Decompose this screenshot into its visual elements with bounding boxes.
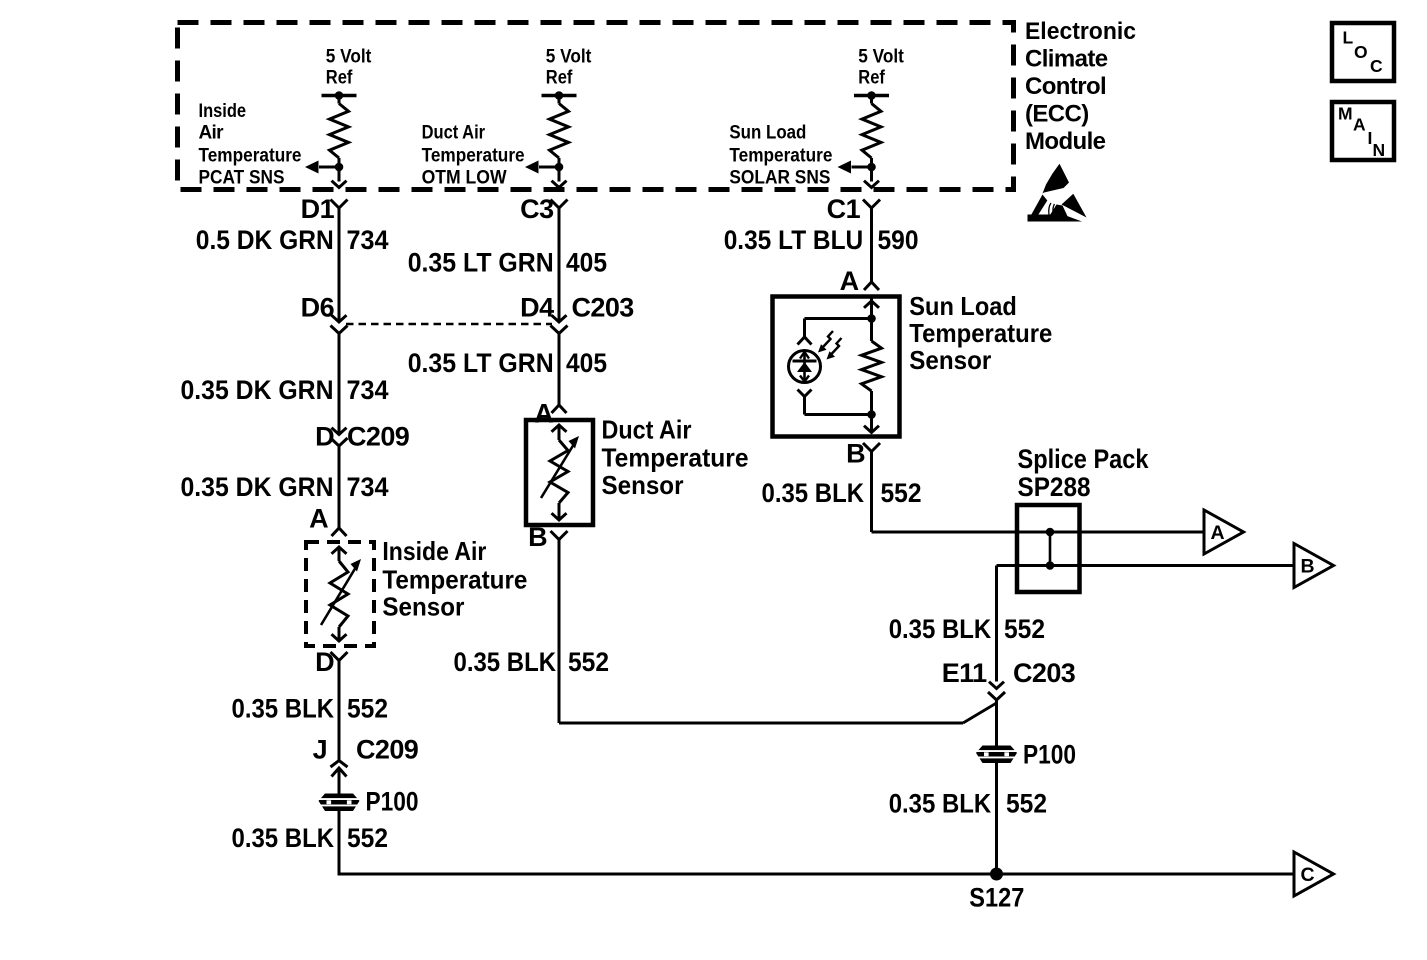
svg-text:Temperature: Temperature [382, 565, 527, 595]
svg-text:A: A [1353, 115, 1366, 135]
thermistor RT1 (inside air sensor) [332, 547, 347, 554]
svg-text:0.35 BLK: 0.35 BLK [889, 614, 992, 644]
5V ref rail (cell D1) [322, 94, 357, 98]
svg-text:C209: C209 [347, 422, 410, 452]
node: sense junction (cell C3) [555, 163, 564, 172]
module exit arrow (terminal D1) [332, 181, 347, 188]
wire: C209 to sensor pin A (0.35 DK GRN 734) [338, 446, 341, 528]
sun sensor left branch wires [805, 317, 872, 320]
svg-text:Air: Air [199, 122, 225, 143]
svg-text:0.35 BLK: 0.35 BLK [232, 823, 335, 853]
wire: C3 to D4 (0.35 LT GRN 405) [558, 208, 561, 322]
svg-text:Duct Air: Duct Air [422, 122, 486, 143]
node: splice upper junction [1046, 528, 1055, 537]
pin B connector cup (duct) [551, 531, 568, 540]
svg-text:552: 552 [881, 478, 922, 508]
wire node to terminal C3 [558, 167, 561, 182]
splice pack SP288 outline [1017, 505, 1080, 592]
wire rail to resistor (cell C1) [870, 96, 873, 104]
in-line connector D6 (C203) [332, 315, 347, 322]
svg-text:S127: S127 [969, 883, 1024, 913]
signal arrow to PCAT SNS (cell D1) [319, 166, 339, 169]
resistor R4 (sun sensor) [862, 341, 882, 391]
svg-text:Inside Air: Inside Air [382, 536, 486, 566]
svg-text:Climate: Climate [1025, 45, 1108, 72]
svg-text:Module: Module [1025, 128, 1106, 155]
svg-text:0.35 BLK: 0.35 BLK [232, 694, 335, 724]
inside air temperature sensor outline (dashed box) [306, 542, 374, 646]
svg-text:M: M [1338, 104, 1352, 124]
svg-text:Duct Air: Duct Air [602, 415, 692, 445]
svg-text:D: D [315, 422, 334, 452]
grommet P100 (right) [976, 746, 1017, 764]
svg-text:5 Volt: 5 Volt [326, 46, 372, 67]
svg-text:SOLAR SNS: SOLAR SNS [729, 168, 830, 189]
svg-text:0.35 LT BLU: 0.35 LT BLU [724, 225, 864, 255]
svg-text:405: 405 [566, 248, 607, 278]
in-line connector J C209 [331, 761, 348, 768]
svg-text:A: A [1211, 522, 1225, 544]
module exit arrow (terminal C3) [552, 181, 567, 188]
svg-text:C209: C209 [356, 735, 419, 765]
wire resistor to node (cell C1) [870, 158, 873, 167]
svg-text:A: A [534, 399, 553, 429]
svg-text:Inside: Inside [199, 101, 247, 122]
svg-text:734: 734 [347, 375, 389, 405]
wire resistor to node (cell C3) [558, 158, 561, 167]
svg-text:Temperature: Temperature [602, 443, 749, 473]
svg-text:0.35 LT GRN: 0.35 LT GRN [408, 348, 554, 378]
svg-text:Ref: Ref [546, 68, 573, 89]
svg-text:552: 552 [1006, 789, 1047, 819]
svg-text:0.5 DK GRN: 0.5 DK GRN [196, 225, 334, 255]
svg-text:N: N [1373, 140, 1385, 160]
wire: P100 to ground rail [339, 811, 1294, 874]
node: 5V rail junction (cell C1) [867, 91, 876, 100]
svg-text:Sensor: Sensor [602, 470, 684, 500]
photodiode bottom cup [798, 390, 812, 397]
node: 5V rail junction (cell C3) [555, 91, 564, 100]
pin A connector chevron (duct) [552, 405, 567, 413]
resistor R2 (pull-up, cell C3) [550, 104, 569, 159]
svg-text:D6: D6 [301, 293, 335, 323]
svg-text:P100: P100 [1023, 740, 1076, 770]
wire: splice to connector B run [997, 564, 1295, 567]
5V ref rail (cell C3) [542, 94, 577, 98]
node: sense junction (cell C1) [867, 163, 876, 172]
wire node to terminal C1 [870, 167, 873, 182]
svg-text:Sensor: Sensor [382, 592, 464, 622]
svg-text:O: O [1354, 42, 1367, 62]
svg-text:Sun Load: Sun Load [729, 122, 806, 143]
connector triangle A [1204, 510, 1244, 554]
node: splice lower junction [1046, 561, 1055, 570]
svg-text:C203: C203 [1013, 658, 1076, 688]
in-line connector E11 C203 [989, 682, 1004, 689]
pin A connector chevron (sun) [864, 282, 879, 290]
wire: C209 to P100 grommet [338, 768, 341, 794]
node: sun sensor bottom junction [867, 410, 876, 419]
svg-text:0.35 DK GRN: 0.35 DK GRN [181, 375, 334, 405]
svg-text:B: B [528, 522, 547, 552]
wire: P100 to splice S127 [995, 763, 998, 874]
pin D connector cup [331, 652, 348, 661]
svg-text:Control: Control [1025, 73, 1106, 100]
LOC tab box [1332, 23, 1394, 81]
sun sensor internal wire (right branch) [870, 297, 873, 342]
wire: D4 to duct sensor pin A (0.35 LT GRN 405) [558, 334, 561, 405]
svg-text:C: C [1370, 56, 1383, 76]
svg-text:0.35 DK GRN: 0.35 DK GRN [181, 472, 334, 502]
terminal C3 connector cup [551, 200, 568, 209]
grommet P100 (left) [319, 794, 360, 812]
resistor R3 (pull-up, cell C1) [862, 104, 881, 159]
terminal C1 connector cup [863, 200, 880, 209]
svg-text:5 Volt: 5 Volt [858, 46, 904, 67]
ESD sensitivity symbol [1043, 164, 1070, 194]
connector triangle B [1294, 544, 1334, 588]
node: 5V rail junction (cell D1) [335, 91, 344, 100]
svg-text:D1: D1 [301, 194, 335, 224]
in-line connector D4 C203 [552, 315, 567, 322]
svg-text:Ref: Ref [326, 68, 353, 89]
svg-text:L: L [1343, 28, 1354, 48]
svg-text:0.35 BLK: 0.35 BLK [889, 789, 992, 819]
svg-text:J: J [313, 735, 327, 765]
svg-text:P100: P100 [366, 787, 419, 817]
svg-text:C: C [1301, 864, 1315, 886]
wire: C203 to P100 grommet (right) [995, 700, 998, 746]
photodiode D1 (sun sensor) top chevron [798, 337, 812, 345]
splice internal link [1049, 532, 1052, 566]
wire: C1 to sun sensor pin A (0.35 LT BLU 590) [870, 208, 873, 282]
svg-text:0.35 BLK: 0.35 BLK [454, 647, 557, 677]
svg-text:Ref: Ref [858, 68, 885, 89]
wire: D6 to C209 (0.35 DK GRN 734) [338, 334, 341, 435]
splice S127 junction dot [990, 868, 1003, 881]
svg-text:734: 734 [347, 472, 389, 502]
svg-text:590: 590 [878, 225, 919, 255]
sun load temperature sensor outline [773, 297, 900, 437]
duct air temperature sensor outline [526, 420, 593, 525]
svg-text:A: A [309, 504, 328, 534]
photodiode D1 circle [789, 351, 821, 383]
svg-text:A: A [840, 266, 859, 296]
svg-text:5 Volt: 5 Volt [546, 46, 592, 67]
svg-text:Sun Load: Sun Load [909, 291, 1017, 321]
svg-text:PCAT SNS: PCAT SNS [199, 168, 285, 189]
wire resistor to node (cell D1) [338, 158, 341, 167]
wire: duct sensor B to C203 splice (0.35 BLK 552) [558, 539, 561, 723]
module exit arrow (terminal C1) [864, 181, 879, 188]
light arrows into photodiode [823, 331, 834, 348]
connector C203 dashed tie-line [346, 323, 552, 325]
terminal D1 connector cup [331, 200, 348, 209]
svg-text:SP288: SP288 [1018, 472, 1091, 502]
svg-text:Temperature: Temperature [422, 146, 525, 167]
wire rail to resistor (cell C3) [558, 96, 561, 104]
svg-text:OTM LOW: OTM LOW [422, 168, 507, 189]
pin A connector chevron [332, 528, 347, 536]
wire node to terminal D1 [338, 167, 341, 182]
svg-text:(ECC): (ECC) [1025, 100, 1089, 127]
svg-text:Temperature: Temperature [909, 318, 1052, 348]
thermistor RT2 (duct air sensor) [552, 425, 567, 432]
svg-text:0.35 LT GRN: 0.35 LT GRN [408, 248, 554, 278]
signal arrow to SOLAR SNS (cell C1) [852, 166, 872, 169]
svg-text:D4: D4 [520, 293, 554, 323]
connector triangle C [1294, 852, 1334, 896]
svg-text:552: 552 [347, 694, 388, 724]
svg-text:552: 552 [568, 647, 609, 677]
resistor R1 (pull-up, cell D1) [330, 104, 349, 159]
svg-text:C203: C203 [572, 293, 635, 323]
svg-text:B: B [1301, 556, 1315, 578]
pin B connector cup (sun) [863, 443, 880, 452]
5V ref rail (cell C1) [854, 94, 889, 98]
in-line connector D C209 [332, 428, 347, 435]
svg-text:552: 552 [347, 823, 388, 853]
wire: sensor D to J C209 (0.35 BLK 552) [338, 660, 341, 761]
wire: sun sensor B to splice pack (0.35 BLK 552) [870, 451, 873, 532]
signal arrow to OTM LOW (cell C3) [539, 166, 559, 169]
svg-text:734: 734 [347, 225, 389, 255]
svg-text:552: 552 [1004, 614, 1045, 644]
node: sense junction (cell D1) [335, 163, 344, 172]
svg-text:C3: C3 [520, 194, 554, 224]
wire rail to resistor (cell D1) [338, 96, 341, 104]
svg-text:Temperature: Temperature [729, 146, 832, 167]
svg-text:Temperature: Temperature [199, 146, 302, 167]
svg-text:Electronic: Electronic [1025, 18, 1136, 45]
wire: D1 to D6 (0.5 DK GRN 734) [338, 208, 341, 322]
node: sun sensor top junction [867, 314, 876, 323]
svg-text:0.35 BLK: 0.35 BLK [762, 478, 865, 508]
svg-text:C1: C1 [827, 194, 861, 224]
svg-text:Splice Pack: Splice Pack [1018, 444, 1150, 474]
MAIN tab box [1332, 102, 1394, 160]
svg-text:E11: E11 [942, 658, 987, 688]
svg-text:Sensor: Sensor [909, 345, 991, 375]
svg-text:405: 405 [566, 348, 607, 378]
svg-text:B: B [846, 439, 865, 469]
wire: splice branch down to E11 [995, 566, 998, 682]
svg-text:I: I [1368, 128, 1372, 148]
ECC module outline (dashed box) [178, 23, 1014, 190]
